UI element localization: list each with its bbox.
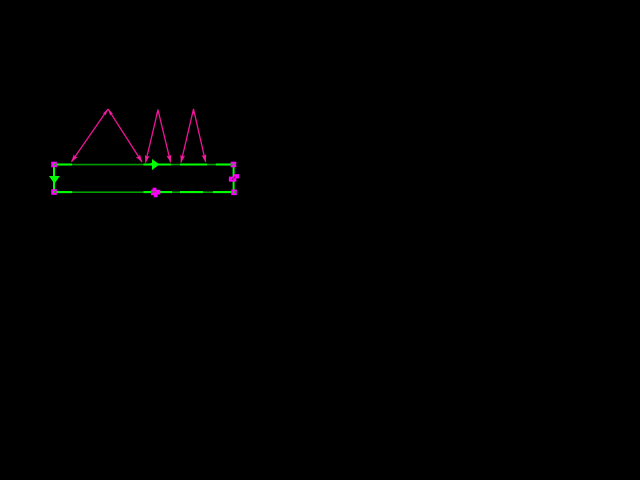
wire: top edge bright segment 3 [180,163,207,165]
arrowhead at peak2 vertex [156,108,160,115]
green arrow down (left edge midpoint) [49,176,60,184]
arrow peak1 left leg [72,109,109,162]
arrow peak2 right leg [158,110,171,162]
arrow peak1 right leg [108,109,142,162]
node handle bottom-right [231,190,237,196]
wire: bottom edge bright segment 3 [180,191,203,193]
node handle top-right [231,162,237,168]
node handle bottom-left [51,189,57,195]
arrowhead at peak3 vertex [191,108,195,116]
green arrow right (top edge midpoint) [151,159,160,170]
wire: right edge vertical [233,166,235,190]
arrow peak2 left leg [146,110,159,163]
arrow peak3 left leg [181,109,194,163]
magenta marker blob on bottom edge midpoint [151,188,160,198]
wire: top edge bright segment 1 [56,163,72,165]
wire: bottom edge bright segment 4 [213,191,232,193]
node handle top-left [51,162,57,168]
wire: top edge dark base line [57,164,232,166]
magenta arrow blob on right edge midpoint [229,174,239,182]
wire: left edge vertical [53,166,55,190]
wire: top edge bright segment 2 [144,163,172,165]
arrow peak3 right leg [194,109,206,162]
wire: top edge bright segment 4 [216,163,232,165]
wire: bottom edge dark base line [57,191,232,193]
wire: bottom edge bright segment 2 [144,191,173,193]
wire: bottom edge bright segment 1 [56,191,72,193]
